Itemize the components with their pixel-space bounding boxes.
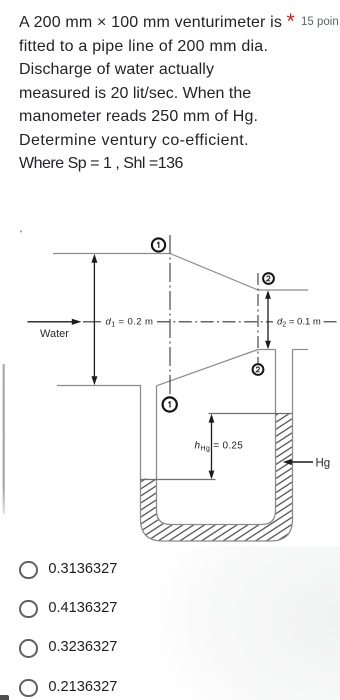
svg-text:d2 = 0.1 m: d2 = 0.1 m <box>277 317 321 329</box>
section line 1 <box>169 235 171 396</box>
pipe top line <box>53 253 170 255</box>
svg-text:Water: Water <box>40 328 69 340</box>
hHg dimension arrow <box>209 414 215 480</box>
vessel outer contour <box>141 350 293 542</box>
corner dark square <box>0 695 9 700</box>
node 2 bottom <box>253 364 264 375</box>
node 1 bottom <box>163 397 177 411</box>
options <box>19 561 319 579</box>
water flow arrow <box>28 319 82 325</box>
vessel hatch band <box>141 414 293 541</box>
svg-text:d1 = 0.2 m: d1 = 0.2 m <box>106 317 154 329</box>
mercury level right <box>209 413 293 415</box>
svg-text:Hg: Hg <box>316 458 331 470</box>
converging bottom line <box>157 350 259 386</box>
vessel inner contour <box>157 350 276 525</box>
centerline <box>83 321 101 323</box>
left margin grey line <box>3 364 5 514</box>
node 2 top <box>263 273 274 284</box>
right extension line <box>293 349 309 351</box>
svg-text:hHg = 0.25: hHg = 0.25 <box>195 441 244 453</box>
mercury level left <box>141 479 216 481</box>
throat bottom line <box>258 349 276 351</box>
section line 2 <box>257 273 259 364</box>
converging top line <box>170 254 258 291</box>
d1 dimension arrow <box>91 254 97 385</box>
stray dot <box>20 231 22 233</box>
Hg pointer arrow <box>283 459 313 465</box>
node 1 top <box>152 238 165 251</box>
pipe bottom line <box>57 385 141 387</box>
d2 dimension arrow <box>265 290 271 349</box>
throat top extension line <box>258 289 308 291</box>
